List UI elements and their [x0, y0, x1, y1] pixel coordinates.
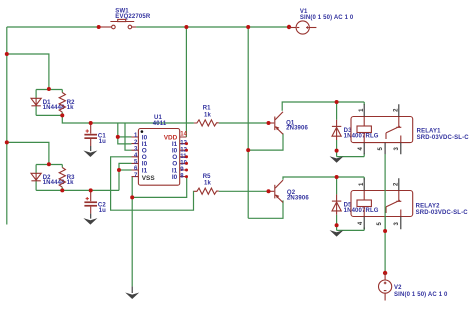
junction left rail / D2-R3 branch [5, 140, 9, 144]
svg-text:2N3906: 2N3906 [286, 126, 308, 132]
svg-text:1k: 1k [204, 112, 211, 118]
svg-text:SRD-03VDC-SL-C: SRD-03VDC-SL-C [416, 210, 469, 216]
wire Q1 collector to relay1 [282, 102, 364, 111]
node D1-R2 bottom [60, 113, 64, 117]
RELAY1 coil [357, 126, 371, 133]
U1 left pin stubs 1-7 [132, 137, 139, 177]
junction Q1 base [267, 121, 271, 125]
voltage source V1 [287, 9, 354, 34]
svg-text:R1: R1 [203, 106, 211, 112]
svg-text:1N4007RLG: 1N4007RLG [344, 208, 379, 214]
svg-text:2N3906: 2N3906 [287, 196, 309, 202]
svg-text:1k: 1k [67, 105, 74, 111]
svg-text:EVQ22705R: EVQ22705R [115, 14, 151, 20]
svg-text:1k: 1k [204, 181, 211, 187]
wire relay2 pin4 return [337, 228, 365, 231]
relay RELAY1 [351, 104, 469, 154]
svg-text:1N4007RLG: 1N4007RLG [344, 134, 379, 140]
junction RELAY2 pin5 / V2 net [383, 229, 387, 233]
ground D3 [330, 156, 344, 163]
junction U1 pin5/pin6 tie [117, 168, 121, 172]
svg-text:1N4448: 1N4448 [43, 105, 65, 111]
U1 unconnected pin-end dots 13-8 [185, 142, 188, 145]
wire relay1 pin4 return [337, 154, 365, 157]
node D2-R3 bottom [60, 188, 64, 192]
wire branch to D1/R2 [7, 54, 49, 89]
resistor R1 [194, 106, 219, 127]
junction C1 top [89, 121, 93, 125]
transistor Q1 [269, 112, 309, 134]
ground C1 [90, 146, 92, 151]
wire Q2 collector to relay2 [283, 177, 364, 180]
wire R1 to Q1 base [219, 122, 269, 124]
wire top rail right [136, 26, 289, 28]
svg-text:I0: I0 [172, 174, 178, 181]
svg-text:RELAY2: RELAY2 [416, 203, 441, 209]
diode D2 [31, 173, 65, 186]
wire D3 top [336, 102, 338, 120]
node D2-R3 top [47, 162, 51, 166]
wire D2/R3 loop [36, 165, 62, 191]
RELAY1 contact [386, 117, 401, 143]
svg-text:1k: 1k [67, 180, 74, 186]
wire VSS to pin8 [132, 177, 187, 198]
wire D5 top [336, 177, 338, 194]
RELAY1 pin stubs [364, 104, 401, 154]
ground D5 [330, 230, 344, 237]
wire left rail [6, 27, 8, 225]
wire V1 net vertical to Q2 emitter [247, 27, 249, 218]
resistor R2 [59, 93, 75, 113]
svg-text:SIN(0 1 50) AC 1 0: SIN(0 1 50) AC 1 0 [394, 292, 448, 298]
wire R5 to Q2 base [219, 190, 269, 192]
switch SW1 [99, 8, 151, 29]
svg-text:V2: V2 [394, 285, 402, 291]
junction VSS net [130, 195, 134, 199]
svg-text:4011: 4011 [153, 121, 167, 127]
wire pin4 to R5 [111, 157, 194, 210]
svg-text:SIN(0 1 50) AC 1 0: SIN(0 1 50) AC 1 0 [300, 15, 354, 21]
IC U1 4011 [132, 115, 189, 185]
node D1-R2 top [47, 87, 51, 91]
wire VSS vertical [131, 177, 134, 287]
wire loop1 to R1 net [62, 115, 194, 123]
junction U1 pin1/pin2 tie [116, 135, 120, 139]
wire pin3 [125, 123, 132, 150]
svg-text:14: 14 [180, 132, 187, 138]
wire Q1 emitter branch [248, 133, 283, 150]
svg-text:1u: 1u [99, 208, 106, 214]
diode D3 [332, 120, 379, 140]
RELAY2 contact [386, 191, 401, 217]
RELAY2 coil [357, 200, 371, 207]
ground VSS [125, 286, 139, 299]
junction D3 cathode / ground [335, 149, 339, 153]
wire pin5 [119, 163, 132, 190]
wire top rail left [7, 26, 99, 28]
ground C2 [90, 214, 92, 219]
voltage source V2 [379, 271, 449, 301]
diode D5 [332, 194, 379, 214]
wire D3 bottom [336, 140, 338, 157]
wire loop2 bottom net [62, 189, 119, 191]
wire relay1 pin5 down to relay2 pin5 [384, 154, 386, 231]
junction top rail / VDD riser [184, 25, 188, 29]
wire to V2 [384, 231, 386, 273]
svg-text:SRD-03VDC-SL-C: SRD-03VDC-SL-C [417, 135, 470, 141]
wire branch to D2/R3 [7, 142, 49, 164]
junction SW1 pin1 on top rail [97, 25, 101, 29]
RELAY2 pin stubs [364, 178, 401, 229]
capacitor C2 [83, 190, 106, 224]
wire relay1 pin1 drop [363, 102, 365, 105]
junction C2 top [89, 188, 93, 192]
junction Q1 collector / D3 [335, 100, 339, 104]
U1 right pin stubs 14-8 [180, 137, 187, 177]
wire D1/R2 loop [36, 90, 62, 116]
svg-text:1u: 1u [99, 139, 106, 145]
junction Q2 collector / D5 [335, 175, 339, 179]
junction V1 net / Q1 emitter [246, 148, 250, 152]
transistor Q2 [269, 180, 310, 202]
resistor R5 [194, 174, 219, 194]
svg-text:1N4448: 1N4448 [43, 180, 65, 186]
svg-text:I1: I1 [142, 167, 148, 174]
svg-text:RELAY1: RELAY1 [417, 128, 442, 134]
wire pins1-2 tie [118, 123, 132, 144]
svg-text:VSS: VSS [142, 175, 156, 182]
svg-text:R5: R5 [203, 174, 211, 180]
junction top rail / V1 net riser [246, 25, 250, 29]
relay RELAY2 [351, 178, 468, 229]
wire pin6 spur [119, 169, 132, 171]
capacitor C1 [83, 123, 106, 157]
wire D5 bottom [336, 215, 338, 231]
wire relay2 pin1 drop [363, 177, 365, 180]
junction Q2 base [267, 189, 271, 193]
diode D1 [31, 98, 65, 111]
junction left rail / D1-R2 branch [5, 52, 9, 56]
junction D5 cathode / ground [335, 223, 339, 227]
resistor R3 [59, 168, 75, 188]
wire VDD vertical [185, 27, 187, 137]
wire pin1 spur [118, 136, 132, 138]
